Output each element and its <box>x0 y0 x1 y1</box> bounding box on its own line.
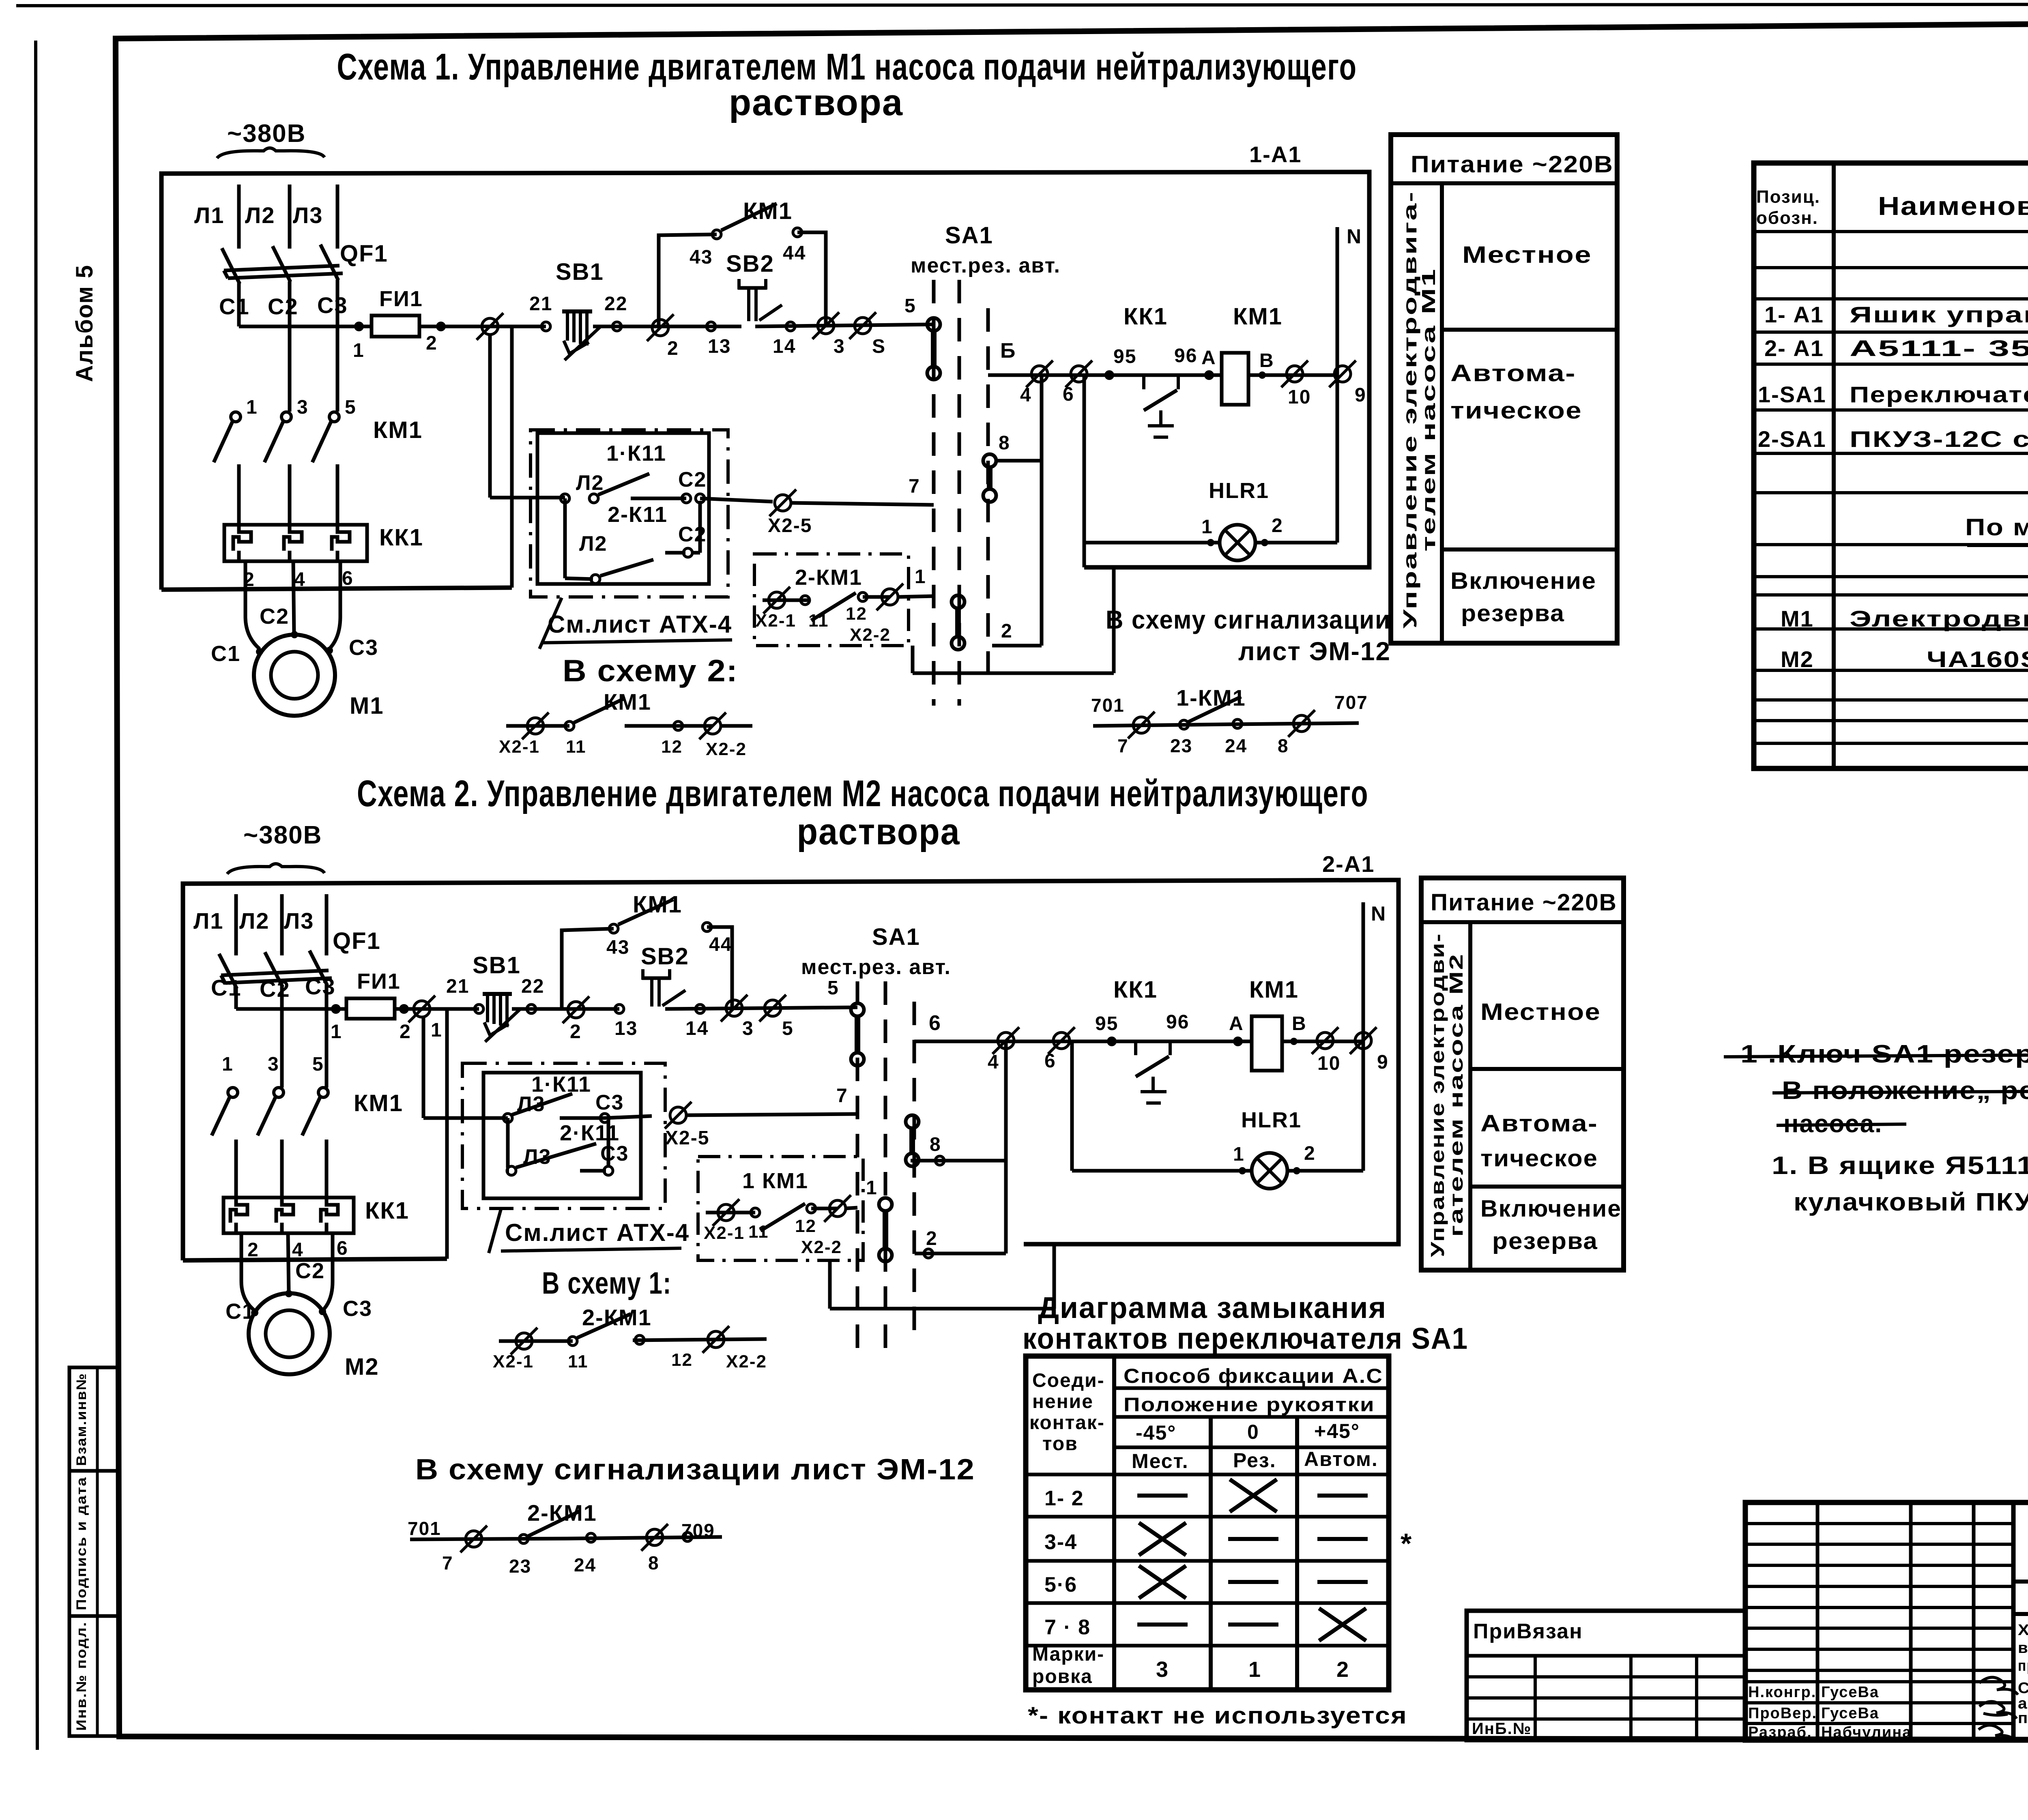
terminal 2 schema1 <box>652 320 668 336</box>
svg-text:24: 24 <box>574 1554 596 1575</box>
svg-text:Автома-: Автома- <box>1450 360 1576 386</box>
terminal 9 schema1 <box>1334 366 1351 382</box>
svg-text:5: 5 <box>827 977 839 999</box>
svg-text:ПроВер.: ПроВер. <box>1748 1705 1817 1722</box>
wire 6 line schema2 <box>914 1040 1112 1043</box>
svg-text:12: 12 <box>795 1216 816 1236</box>
KM1 bypass box schema1 <box>659 234 717 326</box>
circuit breaker QF1 schema2 <box>221 970 329 975</box>
wire SB2 to SA1 schema2 <box>665 1007 857 1009</box>
title block main frame <box>1745 1502 2028 1740</box>
svg-text:Х2-2: Х2-2 <box>706 739 747 759</box>
motor M1 <box>254 635 335 716</box>
svg-text:2: 2 <box>1272 515 1283 537</box>
svg-text:Переключатель кулачковый: Переключатель кулачковый <box>1850 382 2028 407</box>
TP number row <box>2013 1580 2028 1584</box>
svg-text:1: 1 <box>353 340 365 361</box>
svg-text:1: 1 <box>915 566 926 588</box>
wire SB1 to SB2 schema2 <box>531 1007 619 1011</box>
svg-text:-45°: -45° <box>1136 1421 1176 1444</box>
svg-text:Л1: Л1 <box>193 908 223 934</box>
svg-text:7 · 8: 7 · 8 <box>1044 1616 1091 1639</box>
svg-text:Местное: Местное <box>1480 999 1601 1025</box>
svg-text:По месту: По месту <box>1965 514 2028 541</box>
power box 1 title <box>1391 181 1617 185</box>
svg-text:КМ1: КМ1 <box>354 1090 403 1116</box>
thermal relay KK1 box schema1 <box>224 525 367 561</box>
svg-text:Яшик управления: Яшик управления <box>1850 302 2028 327</box>
svg-text:1- 2: 1- 2 <box>1044 1487 1084 1510</box>
signature scribbles <box>1979 1677 2018 1695</box>
node after 6 schema1 <box>1104 370 1114 380</box>
svg-text:ПриВязан: ПриВязан <box>1473 1620 1583 1643</box>
box 2-A1 outline <box>183 880 1399 1260</box>
diagram col split <box>1112 1356 1116 1690</box>
wire riser to box bottom schema2 <box>445 1009 449 1259</box>
svg-text:Альбом 5: Альбом 5 <box>71 264 98 382</box>
svg-text:9: 9 <box>1377 1052 1389 1073</box>
svg-text:КМ1: КМ1 <box>633 891 682 918</box>
svg-text:С3: С3 <box>595 1091 624 1114</box>
junction dot schema1 <box>354 322 364 331</box>
svg-text:ГусеВа: ГусеВа <box>1821 1705 1879 1722</box>
svg-text:5·6: 5·6 <box>1044 1573 1077 1597</box>
svg-text:3: 3 <box>834 336 845 357</box>
1-K11 contact schema2 <box>423 1116 508 1120</box>
KN1 out wire schema2 <box>605 1116 652 1118</box>
svg-text:раствора: раствора <box>797 811 960 852</box>
svg-text:5: 5 <box>904 295 916 317</box>
terminal 6 schema1 <box>1071 366 1087 382</box>
svg-text:3: 3 <box>297 397 309 418</box>
svg-text:Л2: Л2 <box>245 202 275 228</box>
svg-text:КМ1: КМ1 <box>743 198 793 224</box>
svg-text:21: 21 <box>529 293 552 315</box>
svg-text:Питание ~220В: Питание ~220В <box>1431 889 1617 916</box>
svg-text:95: 95 <box>1113 346 1136 367</box>
2-K11 contact schema1 <box>563 498 567 578</box>
SA1 contact 8 schema2 <box>906 1115 919 1128</box>
fuse FU1 schema1 <box>372 315 419 337</box>
terminal 5 schema1 <box>855 318 871 334</box>
wire X2-5 to SA1 schema2 <box>686 1114 857 1115</box>
svg-text:N: N <box>1347 225 1362 248</box>
svg-text:КК1: КК1 <box>1124 303 1168 330</box>
svg-text:Способ фиксации А.С: Способ фиксации А.С <box>1124 1365 1383 1387</box>
svg-text:А: А <box>1201 347 1216 369</box>
svg-text:Взам.инв№: Взам.инв№ <box>74 1373 89 1466</box>
box 2-A1 bottom-left edge <box>183 1259 447 1260</box>
svg-text:тическое: тическое <box>1450 397 1582 424</box>
lamp loop left schema2 <box>1070 1041 1074 1171</box>
svg-text:С3: С3 <box>317 292 348 318</box>
svg-text:7: 7 <box>442 1552 453 1573</box>
SA1 dashed line 2 schema1 <box>958 280 961 706</box>
svg-text:1. В ящике Я5111·3574 УХЛ4: 1. В ящике Я5111·3574 УХЛ4 переключатель <box>1772 1152 2028 1180</box>
phase line Л3 schema2 <box>325 894 329 955</box>
node 21 schema1 <box>541 322 550 331</box>
wire riser to box bottom schema1 <box>510 326 514 588</box>
svg-text:Х2-2: Х2-2 <box>801 1237 842 1257</box>
1 KM1 contact chain schema2 <box>706 1211 755 1215</box>
svg-text:В схему сигнализации лист ЭМ-: В схему сигнализации лист ЭМ-12 <box>415 1453 975 1486</box>
KK1 break contact schema1 <box>1142 375 1145 389</box>
svg-text:нение: нение <box>1032 1391 1093 1412</box>
svg-text:Х2-1: Х2-1 <box>499 737 540 757</box>
power box 2 divider <box>1468 922 1472 1270</box>
svg-text:Рез.: Рез. <box>1233 1449 1276 1472</box>
svg-text:1: 1 <box>331 1021 342 1043</box>
svg-text:8: 8 <box>648 1552 660 1573</box>
lamp HLR1 schema2 <box>1252 1153 1287 1189</box>
KK1 break contact schema2 <box>1134 1041 1137 1055</box>
svg-text:телем насоса М1: телем насоса М1 <box>1418 268 1439 552</box>
svg-text:3-4: 3-4 <box>1044 1530 1077 1554</box>
svg-text:КМ1: КМ1 <box>1249 977 1299 1003</box>
svg-text:8: 8 <box>930 1134 941 1155</box>
KN1 dash-dot box schema1 <box>531 430 728 597</box>
svg-text:7: 7 <box>1117 735 1129 756</box>
svg-text:QF1: QF1 <box>333 928 381 954</box>
svg-text:С3: С3 <box>343 1296 372 1321</box>
phase line Л1 schema1 <box>237 185 241 249</box>
svg-text:Подпись и дата: Подпись и дата <box>74 1477 89 1610</box>
svg-text:ПКУЗ-12С схема 2024-УЗ: ПКУЗ-12С схема 2024-УЗ <box>1850 426 2028 452</box>
svg-text:С2: С2 <box>295 1259 325 1283</box>
svg-text:Л3: Л3 <box>293 202 323 228</box>
N line schema2 <box>1362 902 1365 1171</box>
svg-text:вания питьевых и сточных вод: вания питьевых и сточных вод <box>2018 1640 2028 1657</box>
terminal 3 schema2 <box>726 1000 742 1016</box>
KK1 heater element schema1 <box>284 525 302 561</box>
motor M2 terminals <box>251 1309 258 1316</box>
svg-text:2: 2 <box>1336 1657 1349 1682</box>
terminal 2 schema2 <box>568 1002 584 1018</box>
svg-text:В схему 2:: В схему 2: <box>563 654 738 688</box>
KM1 chain to scheme2 <box>506 724 569 728</box>
380V brace schema 1 <box>217 148 324 158</box>
junction dot schema2 <box>331 1004 341 1014</box>
SA1 dashed line 1 schema1 <box>932 280 936 706</box>
svg-text:Схема 2. Управление двигател: Схема 2. Управление двигателем М2 насоса… <box>357 773 1368 814</box>
KM1 main contact 3 schema1 <box>281 412 291 422</box>
svg-text:10: 10 <box>1317 1053 1341 1074</box>
privyazan grid <box>1467 1675 1745 1678</box>
svg-text:резерва: резерва <box>1461 600 1565 627</box>
circuit breaker QF1 schema1 <box>224 266 339 270</box>
node 13 schema2 <box>615 1004 624 1013</box>
svg-text:6: 6 <box>1044 1050 1056 1072</box>
svg-text:QF1: QF1 <box>340 240 388 267</box>
svg-text:Л3: Л3 <box>517 1092 545 1116</box>
svg-text:FИ1: FИ1 <box>379 287 423 311</box>
svg-text:В: В <box>1259 350 1274 371</box>
svg-text:Л1: Л1 <box>194 202 224 228</box>
svg-text:С2: С2 <box>678 468 707 491</box>
KK1 heater element schema2 <box>321 1198 338 1233</box>
KM1 main contact 5 schema1 <box>329 412 339 422</box>
pushbutton SB2 schema2 <box>642 977 670 980</box>
svg-text:N: N <box>1371 902 1386 925</box>
svg-text:Автома-: Автома- <box>1480 1110 1598 1137</box>
svg-text:13: 13 <box>614 1018 638 1039</box>
power box 2 title <box>1421 920 1624 924</box>
1-K11 contact schema1 <box>561 494 569 503</box>
svg-text:14: 14 <box>773 336 796 357</box>
svg-text:Х2-1: Х2-1 <box>704 1223 745 1243</box>
svg-text:ЧА160S2; N=15кВт: ЧА160S2; N=15кВт <box>1927 646 2028 672</box>
svg-text:FИ1: FИ1 <box>357 969 401 994</box>
svg-text:1: 1 <box>431 1019 443 1041</box>
svg-text:мест.рез. авт.: мест.рез. авт. <box>801 955 951 979</box>
N line schema1 <box>1336 227 1339 543</box>
svg-text:6: 6 <box>1063 384 1074 405</box>
phase drop schema2 <box>280 1009 284 1088</box>
phase drop C2 C3 schema1 <box>288 326 292 412</box>
svg-text:Схема электрическая принципи-: Схема электрическая принципи- <box>2018 1680 2028 1697</box>
terminal X2-5 schema2 <box>670 1107 686 1123</box>
svg-text:лист ЭМ-12: лист ЭМ-12 <box>1238 637 1391 666</box>
wire B to KK1 schema1 <box>1109 373 1222 377</box>
stamp box Vzam.inv <box>69 1367 118 1471</box>
svg-text:701: 701 <box>408 1518 441 1539</box>
svg-text:SB2: SB2 <box>641 943 689 970</box>
svg-text:Схема 1. Управление двигателе: Схема 1. Управление двигателем М1 насоса… <box>337 46 1357 88</box>
svg-text:~380В: ~380В <box>243 821 322 849</box>
svg-text:701: 701 <box>1091 695 1125 716</box>
diagram rows <box>1114 1415 1389 1419</box>
svg-text:1 КМ1: 1 КМ1 <box>742 1169 808 1193</box>
svg-text:7: 7 <box>836 1085 848 1107</box>
2-KM1 contact chain schema1 <box>763 599 809 602</box>
KM1 main contact 3 schema2 <box>274 1088 284 1097</box>
svg-text:М2: М2 <box>1781 646 1814 672</box>
terminal 6 schema2 <box>1053 1032 1070 1049</box>
privyazan box <box>1467 1611 1745 1740</box>
svg-text:В схему сигнализации: В схему сигнализации <box>1106 605 1391 634</box>
svg-text:3: 3 <box>1156 1657 1169 1682</box>
svg-text:2: 2 <box>570 1021 582 1043</box>
svg-text:Разраб.: Разраб. <box>1748 1724 1812 1741</box>
svg-text:12: 12 <box>661 737 683 757</box>
svg-text:Х2-5: Х2-5 <box>665 1127 709 1149</box>
svg-text:HLR1: HLR1 <box>1241 1108 1302 1132</box>
wire coil to N schema2 <box>1282 1040 1363 1043</box>
svg-text:~380В: ~380В <box>227 120 306 148</box>
svg-text:1: 1 <box>1233 1144 1245 1165</box>
svg-text:Х2-1: Х2-1 <box>493 1352 534 1371</box>
KK1 heater element schema2 <box>230 1198 247 1233</box>
node A schema1 <box>1204 370 1214 380</box>
svg-text:Марки-: Марки- <box>1032 1644 1104 1665</box>
sheet top edge <box>16 4 2028 6</box>
wire 8 line schema2 <box>911 1159 1006 1163</box>
motor leads schema2 <box>240 1233 243 1281</box>
svg-text:5: 5 <box>312 1054 324 1075</box>
SA1 dashed line 2 schema2 <box>884 981 887 1359</box>
svg-text:5: 5 <box>345 397 357 418</box>
svg-text:С3: С3 <box>349 635 378 660</box>
svg-text:HLR1: HLR1 <box>1209 479 1269 503</box>
phase line Л3 schema1 <box>336 185 339 249</box>
svg-text:Б: Б <box>1000 339 1016 363</box>
1 KM1 dash-dot box schema2 <box>698 1157 863 1260</box>
svg-text:4: 4 <box>1020 384 1032 406</box>
svg-text:2-КМ1: 2-КМ1 <box>795 565 862 590</box>
SA1 contact 5-B schema1 <box>927 318 940 331</box>
svg-text:Включение: Включение <box>1480 1195 1622 1222</box>
svg-text:2: 2 <box>926 1228 938 1249</box>
svg-text:А5111- 3574 УХЛ4: А5111- 3574 УХЛ4 <box>1850 335 2028 361</box>
svg-text:В схему 1:: В схему 1: <box>542 1266 672 1301</box>
svg-text:2-К11: 2-К11 <box>608 502 668 527</box>
svg-text:обозн.: обозн. <box>1756 208 1818 228</box>
KN1 row1 wire schema1 <box>490 496 565 500</box>
node A schema2 <box>1233 1037 1243 1046</box>
svg-text:См.лист АТХ-4: См.лист АТХ-4 <box>548 611 732 638</box>
svg-text:2: 2 <box>1001 620 1013 642</box>
svg-text:См.лист АТХ-4: См.лист АТХ-4 <box>505 1219 690 1246</box>
svg-text:Электродвигатель ~380В: Электродвигатель ~380В <box>1850 606 2028 631</box>
pushbutton SB2 schema1 <box>738 286 767 290</box>
stamp box Inv.N podl. <box>69 1616 118 1736</box>
power box 1 outline <box>1391 135 1617 643</box>
svg-text:96: 96 <box>1166 1011 1189 1033</box>
svg-text:Л2: Л2 <box>579 532 607 556</box>
svg-text:2- А1: 2- А1 <box>1764 335 1824 361</box>
svg-text:Позиц.: Позиц. <box>1756 187 1820 207</box>
wire fuse to SB1 schema2 <box>395 1007 479 1011</box>
svg-text:ровка: ровка <box>1032 1666 1093 1687</box>
svg-text:7: 7 <box>909 476 920 497</box>
SA1 contact 2 schema2 <box>879 1198 892 1211</box>
parts table outline <box>1754 163 2028 768</box>
KK1 heater element schema1 <box>233 525 251 561</box>
svg-text:11: 11 <box>748 1222 769 1242</box>
svg-text:1-SА1: 1-SА1 <box>1758 382 1826 407</box>
SA1 subloop bottom schema2 <box>830 1307 1054 1311</box>
svg-text:Положение рукоятки: Положение рукоятки <box>1124 1394 1375 1416</box>
svg-text:22: 22 <box>604 293 627 315</box>
motor M1 terminals <box>256 648 263 655</box>
svg-text:44: 44 <box>709 934 732 955</box>
2-K11 contact schema2 <box>506 1118 510 1168</box>
svg-text:Автом.: Автом. <box>1304 1448 1378 1470</box>
KM1 chain to scheme1 <box>499 1339 573 1343</box>
wire 8 line schema1 <box>995 459 1042 463</box>
node 22 schema1 <box>612 322 621 331</box>
KM1 aux contact 43-44 schema1 <box>712 230 721 239</box>
node 13 schema1 <box>707 322 715 331</box>
box 1-A1 outline <box>161 172 1369 590</box>
SA1 contact 8 schema1 <box>983 454 996 467</box>
svg-text:С3: С3 <box>600 1142 629 1165</box>
svg-text:11: 11 <box>808 611 829 631</box>
SA1 dashed line 3 schema1 <box>986 308 990 689</box>
svg-text:2: 2 <box>426 333 438 354</box>
KN1 out wire schema1 <box>700 498 773 502</box>
svg-text:13: 13 <box>708 336 731 357</box>
wire 2 stub schema2 <box>915 1252 1006 1256</box>
svg-text:М1: М1 <box>1781 606 1814 631</box>
motor M2 <box>249 1293 330 1374</box>
svg-text:С1: С1 <box>219 294 250 319</box>
svg-text:2: 2 <box>400 1021 411 1043</box>
wire SB1 to SB2 schema1 <box>617 325 711 328</box>
svg-text:23: 23 <box>509 1556 531 1577</box>
svg-text:Х2-2: Х2-2 <box>726 1352 767 1371</box>
svg-text:С2: С2 <box>260 604 289 629</box>
wire 2 stub schema1 <box>992 644 1042 648</box>
svg-text:4: 4 <box>292 1239 304 1261</box>
terminal 3 schema1 <box>818 318 834 334</box>
svg-text:4: 4 <box>294 569 306 590</box>
svg-text:SB1: SB1 <box>556 259 604 285</box>
KM1 main contact 5 schema2 <box>318 1088 328 1097</box>
svg-text:+45°: +45° <box>1314 1420 1360 1442</box>
lamp wire schema2 <box>1072 1169 1252 1173</box>
svg-text:10: 10 <box>1288 386 1311 408</box>
phase line Л2 schema2 <box>280 894 284 955</box>
wire riser to KN1 row schema1 <box>488 335 492 498</box>
svg-text:95: 95 <box>1095 1013 1118 1034</box>
svg-text:резерва: резерва <box>1492 1228 1598 1254</box>
svg-text:КК1: КК1 <box>1113 977 1158 1003</box>
KN1 inner box schema1 <box>537 433 709 584</box>
svg-text:М2: М2 <box>345 1354 379 1380</box>
box 1-A1 bottom-left edge <box>161 588 512 590</box>
svg-text:Мест.: Мест. <box>1132 1450 1189 1472</box>
svg-text:1: 1 <box>222 1054 234 1075</box>
svg-text:Л2: Л2 <box>239 908 269 934</box>
svg-text:Х2-2: Х2-2 <box>850 625 891 645</box>
KM1 aux contact 43-44 schema2 <box>609 924 618 933</box>
KM1 bypass box schema2 <box>562 929 614 1009</box>
KK1 heater element schema1 <box>332 525 350 561</box>
svg-text:С1: С1 <box>226 1299 255 1324</box>
svg-text:11: 11 <box>568 1352 589 1371</box>
svg-text:производительностью 12,5кгхлор: производительностью 12,5кгхлора/час <box>2018 1657 2028 1674</box>
svg-text:КК1: КК1 <box>379 524 423 551</box>
svg-text:43: 43 <box>690 247 713 268</box>
wire riser to KN1 row schema2 <box>422 1018 425 1118</box>
svg-text:12: 12 <box>846 604 867 624</box>
KN1 inner box schema2 <box>483 1073 641 1198</box>
svg-text:Хлораторная для обеззаражи-: Хлораторная для обеззаражи- <box>2018 1622 2028 1639</box>
svg-text:КК1: КК1 <box>365 1198 409 1224</box>
svg-text:22: 22 <box>521 976 544 997</box>
parts table rows <box>1754 230 2028 233</box>
svg-text:8: 8 <box>1278 735 1289 756</box>
svg-text:SB1: SB1 <box>473 952 521 979</box>
SA1 subloop bottom schema1 <box>913 672 1114 675</box>
svg-text:ГусеВа: ГусеВа <box>1821 1684 1879 1701</box>
svg-text:Инв.№ подл.: Инв.№ подл. <box>74 1621 89 1731</box>
svg-text:А: А <box>1229 1013 1244 1034</box>
svg-text:С1: С1 <box>211 642 241 666</box>
wire B line schema1 <box>988 373 1109 377</box>
svg-text:6: 6 <box>342 568 354 589</box>
svg-text:Л2: Л2 <box>576 471 604 495</box>
motor leads schema1 <box>244 561 247 616</box>
svg-text:1: 1 <box>1201 516 1213 538</box>
svg-text:SA1: SA1 <box>945 222 993 249</box>
svg-text:1·К11: 1·К11 <box>606 441 666 466</box>
terminal 9 schema2 <box>1355 1032 1371 1049</box>
KM1 main contact 1 schema1 <box>231 412 241 422</box>
thermal relay KK1 box schema2 <box>223 1198 354 1233</box>
svg-text:707: 707 <box>1334 692 1368 713</box>
